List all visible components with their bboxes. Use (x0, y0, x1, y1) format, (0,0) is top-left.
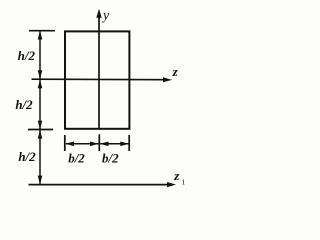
svg-text:1: 1 (181, 177, 185, 186)
extension line left (below rectangle) (64, 135, 66, 151)
svg-text:b/2: b/2 (102, 150, 119, 165)
dimension tick at bottom of rectangle (28, 129, 53, 131)
svg-text:h/2: h/2 (18, 149, 36, 164)
svg-text:z: z (173, 168, 180, 183)
svg-text:b/2: b/2 (68, 150, 85, 165)
dimension line segment top h/2 (39, 32, 41, 79)
z-axis line (32, 78, 166, 81)
dimension tick at top of rectangle (29, 30, 55, 32)
extension line center (below rectangle) (98, 134, 100, 151)
dimension line segment middle h/2 (39, 80, 41, 129)
dimension line segment bottom h/2 (39, 130, 41, 184)
z-axis arrowhead (163, 77, 172, 82)
svg-text:h/2: h/2 (15, 97, 33, 112)
z1-axis line (29, 184, 170, 186)
extension line right (below rectangle) (128, 135, 130, 151)
rectangle cross-section outline (65, 31, 129, 128)
svg-text:h/2: h/2 (18, 48, 36, 63)
z1-axis arrowhead (167, 182, 176, 187)
svg-text:y: y (101, 8, 110, 23)
b/2 dimension line right with arrows (100, 143, 128, 145)
y-axis line (98, 13, 100, 129)
svg-text:z: z (172, 64, 179, 79)
b/2 dimension line left with arrows (66, 143, 98, 145)
y-axis arrowhead (96, 9, 101, 18)
